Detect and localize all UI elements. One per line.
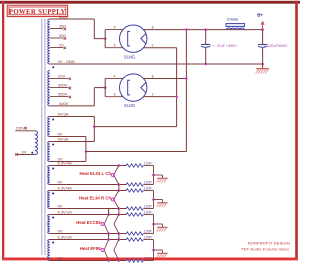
svg-text:220V: 220V: [16, 126, 26, 131]
svg-text:8: 8: [152, 75, 154, 79]
svg-text:6: 6: [114, 93, 116, 97]
svg-text:2: 2: [152, 44, 154, 48]
svg-text:+: +: [263, 44, 265, 48]
svg-text:Heat EL34 L Ch: Heat EL34 L Ch: [80, 171, 112, 176]
svg-text:0V: 0V: [58, 256, 63, 261]
svg-text:4: 4: [114, 26, 116, 30]
svg-text:400v: 400v: [59, 14, 68, 19]
svg-text:120R: 120R: [144, 205, 153, 209]
svg-text:Heat ECC83: Heat ECC83: [76, 220, 101, 225]
svg-text:0V: 0V: [58, 229, 63, 234]
svg-text:20V: 20V: [58, 73, 65, 78]
svg-text:6: 6: [114, 44, 116, 48]
svg-text:Heat EL34 R Ch: Heat EL34 R Ch: [79, 195, 111, 200]
svg-text:8: 8: [152, 26, 154, 30]
svg-text:0V: 0V: [58, 204, 63, 209]
svg-text:120R: 120R: [144, 230, 153, 234]
svg-text:4: 4: [114, 75, 116, 79]
svg-text:6.3V/4A: 6.3V/4A: [58, 161, 73, 166]
svg-text:Heat EF86: Heat EF86: [80, 246, 101, 251]
svg-text:350V: 350V: [58, 92, 68, 97]
svg-text:0V: 0V: [22, 149, 27, 154]
svg-text:Choke: Choke: [227, 16, 239, 21]
svg-text:5V/3A: 5V/3A: [58, 137, 69, 142]
svg-text:120R: 120R: [144, 181, 153, 185]
svg-text:300V: 300V: [58, 83, 68, 88]
svg-text:0V - GND: 0V - GND: [58, 59, 75, 64]
svg-text:400V: 400V: [59, 101, 69, 106]
svg-text:20: 20: [59, 43, 64, 48]
svg-text:120R: 120R: [144, 257, 153, 261]
svg-text:+: +: [212, 44, 214, 48]
svg-text:120R: 120R: [144, 162, 153, 166]
svg-text:120R: 120R: [144, 236, 153, 240]
svg-text:120R: 120R: [144, 187, 153, 191]
svg-text:5V/3A: 5V/3A: [58, 111, 69, 116]
svg-text:47uF / 600V: 47uF / 600V: [217, 44, 238, 48]
svg-text:120R: 120R: [144, 211, 153, 215]
svg-text:TNT-Audio Forums Index: TNT-Audio Forums Index: [241, 246, 289, 251]
svg-text:6.3V/1A: 6.3V/1A: [58, 210, 73, 215]
svg-text:6.3V/4A: 6.3V/4A: [58, 186, 73, 191]
svg-text:2: 2: [152, 93, 154, 97]
svg-text:5U4G: 5U4G: [124, 54, 135, 59]
svg-text:6.3V/1A: 6.3V/1A: [58, 235, 73, 240]
svg-text:350: 350: [59, 24, 66, 29]
svg-text:300: 300: [59, 33, 66, 38]
svg-text:POWER SUPPLY: POWER SUPPLY: [9, 9, 66, 16]
svg-text:B+: B+: [257, 13, 263, 18]
svg-text:5U4G: 5U4G: [124, 103, 135, 108]
svg-text:NONPROFIT DESIGN: NONPROFIT DESIGN: [248, 240, 290, 245]
svg-text:220uF/600V: 220uF/600V: [267, 44, 288, 48]
svg-text:0V: 0V: [58, 180, 63, 185]
